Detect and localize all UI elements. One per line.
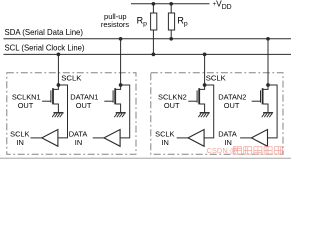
svg-text:SCLK: SCLK (206, 73, 227, 82)
node Rp2-SDA junction (169, 37, 173, 41)
buffer SCLK IN buffer 1 (42, 130, 58, 147)
wire device1 SCLK drain lead (54, 85, 59, 89)
wire device1 DATA drain lead (116, 85, 121, 89)
wire device2 SCLK drain lead (200, 85, 205, 89)
wire DATAN2 gate lead (252, 100, 261, 102)
wire device2 DATA bus tap (267, 39, 269, 85)
svg-text:SCLKN1: SCLKN1 (12, 92, 41, 101)
node device2 SCLK bus junction (203, 53, 207, 57)
wire device2 DATA buffer output (240, 137, 252, 139)
transistor SCLKN1 gate bar (50, 90, 52, 102)
transistor SCLKN1 channel bar (52, 88, 54, 104)
wire DATAN1 source lead (116, 104, 121, 112)
ground under SCLKN1 (52, 113, 63, 117)
node device2 DATA bus junction (266, 37, 270, 41)
transistor SCLKN2 channel bar (198, 88, 200, 104)
node device2 SCLK internal junction (203, 83, 207, 87)
wire device1 SCLK buffer output (31, 137, 43, 139)
wire SCLKN2 gate lead (188, 100, 197, 102)
svg-text:SCLK: SCLK (61, 73, 82, 82)
svg-text:IN: IN (161, 138, 168, 147)
wire SDA bus line (4, 38, 292, 40)
svg-text:resistors: resistors (101, 20, 130, 29)
ground under SCLKN2 (198, 113, 209, 117)
device 2 dashed enclosure (151, 73, 283, 155)
node device1 DATA internal junction (119, 83, 123, 87)
device 1 dashed enclosure (7, 73, 136, 155)
wire DATAN1 gate lead (104, 100, 113, 102)
transistor DATAN2 gate bar (260, 90, 262, 102)
buffer DATA IN buffer 2 (251, 130, 267, 147)
svg-text:OUT: OUT (164, 101, 180, 110)
node Rp1-SCL junction (152, 53, 156, 57)
node device2 DATA internal junction (266, 83, 270, 87)
svg-text:SCL (Serial Clock Line): SCL (Serial Clock Line) (5, 43, 85, 52)
node device1 SCLK bus junction (57, 53, 61, 57)
ground under DATAN2 (262, 113, 273, 117)
svg-text:SCLKN2: SCLKN2 (158, 92, 187, 101)
wire device2 DATA buffer input (268, 85, 278, 138)
wire Rp1 top lead (152, 4, 154, 13)
node Rp1 top junction (152, 2, 156, 6)
svg-text:OUT: OUT (224, 101, 240, 110)
wire device1 SCLK bus tap (57, 54, 59, 85)
wire device2 SCLK buffer input (204, 85, 214, 138)
wire SCL bus line (4, 53, 292, 55)
transistor SCLKN2 gate bar (196, 90, 198, 102)
wire device2 SCLK buffer output (177, 137, 189, 139)
resistor Rp2 (pull-up on SDA) (168, 13, 174, 30)
svg-text:IN: IN (16, 138, 23, 147)
node Rp2 top junction (169, 2, 173, 6)
wire device1 DATA buffer output (93, 137, 105, 139)
wire Rp1 bottom lead to SCL (152, 30, 154, 54)
svg-text:IN: IN (75, 138, 82, 147)
wire DATAN2 source lead (263, 104, 268, 112)
transistor DATAN1 channel bar (114, 88, 116, 104)
wire SCLKN1 gate lead (42, 100, 51, 102)
svg-text:CSDN @: CSDN @ (207, 146, 238, 155)
wire device1 SCLK buffer input (58, 85, 68, 138)
wire device2 SCLK bus tap (204, 54, 206, 85)
svg-text:SDA (Serial Data Line): SDA (Serial Data Line) (5, 28, 84, 37)
transistor DATAN2 channel bar (262, 88, 264, 104)
resistor Rp1 (pull-up on SCL) (151, 13, 157, 30)
node device1 DATA bus junction (119, 37, 123, 41)
wire device1 DATA buffer input (120, 85, 130, 138)
wire Rp2 top lead (170, 4, 172, 13)
wire SCLKN2 source lead (200, 104, 205, 112)
ground under DATAN1 (114, 113, 125, 117)
svg-text:DATAN1: DATAN1 (70, 92, 98, 101)
buffer DATA IN buffer 1 (104, 130, 120, 147)
wire device1 DATA bus tap (120, 39, 122, 85)
wire device2 DATA drain lead (263, 85, 268, 89)
svg-text:OUT: OUT (18, 101, 34, 110)
wire SCLKN1 source lead (54, 104, 59, 112)
footer divider (0, 157, 291, 159)
svg-text:DATAN2: DATAN2 (218, 92, 246, 101)
node device1 SCLK internal junction (57, 83, 61, 87)
svg-text:OUT: OUT (76, 101, 92, 110)
VDD supply rail (131, 3, 210, 5)
transistor DATAN1 gate bar (112, 90, 114, 102)
buffer SCLK IN buffer 2 (188, 130, 204, 147)
wire Rp2 bottom lead to SDA (170, 30, 172, 39)
